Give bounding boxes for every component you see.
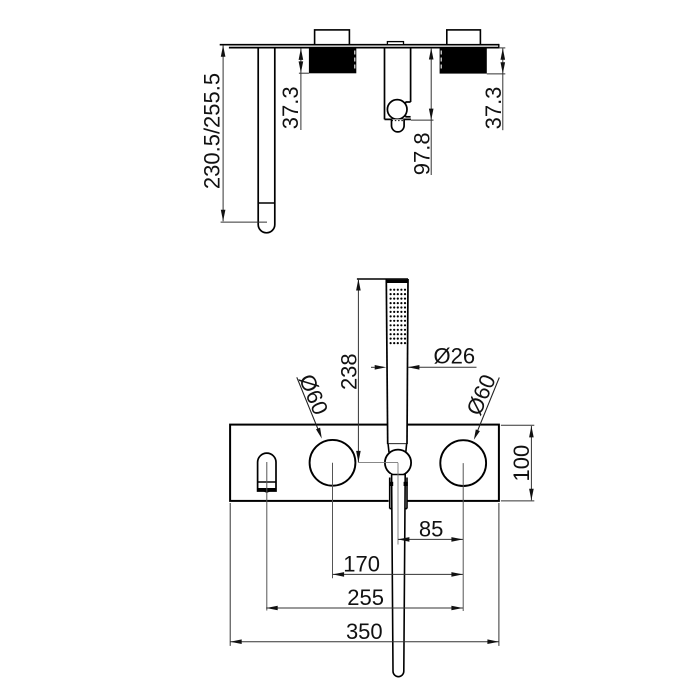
svg-text:350: 350: [346, 619, 383, 644]
holder ball joint: [387, 100, 407, 120]
svg-text:238: 238: [337, 353, 362, 390]
nub dotted top: [392, 120, 405, 122]
handshower holder (side view): [385, 48, 411, 120]
left handle cap above plate: [315, 30, 350, 45]
svg-text:230.5/255.5: 230.5/255.5: [199, 73, 224, 189]
svg-text:37.3: 37.3: [278, 86, 303, 129]
right knob: [440, 440, 486, 486]
dim 97.8: [411, 48, 434, 175]
dim 85: [398, 538, 463, 540]
mounting plate: [230, 425, 499, 501]
svg-text:97.8: 97.8: [410, 132, 435, 175]
dim Ø26: [371, 366, 375, 368]
holder flange above plate: [387, 42, 403, 45]
label Ø60 left leader: [297, 377, 320, 434]
right handle body (black): [440, 48, 487, 73]
dim 100: [501, 425, 534, 501]
left knob: [310, 440, 356, 486]
svg-text:100: 100: [509, 445, 534, 482]
svg-text:255: 255: [347, 585, 384, 610]
spout (side view): [258, 48, 275, 233]
spout centerline: [266, 462, 268, 611]
handshower head black cap: [387, 280, 408, 283]
spout (front view): [258, 453, 276, 491]
centerline horizontal at ball: [358, 461, 398, 463]
hose collar rings: [389, 482, 393, 486]
hose connector blank: [389, 474, 408, 514]
label Ø60 right leader: [476, 378, 500, 436]
dim left 37.3: [299, 48, 309, 130]
dim 350: [230, 503, 499, 646]
wall plate bottom line: [229, 47, 499, 49]
wall plate top line: [220, 44, 499, 46]
svg-text:Ø26: Ø26: [434, 344, 476, 369]
centerline ball to hose: [397, 463, 399, 545]
handshower neck trapezoid: [388, 444, 407, 452]
left handle knurl dashes: [354, 51, 356, 69]
dim 238: [357, 279, 359, 462]
hose collar: [390, 478, 407, 509]
svg-text:170: 170: [343, 552, 380, 577]
svg-text:37.3: 37.3: [481, 87, 506, 130]
wall plate right edge: [498, 44, 500, 49]
handshower body: [386, 279, 408, 444]
dim 255: [266, 607, 463, 609]
spray face dots: [390, 289, 407, 345]
right handle knurl dashes: [440, 51, 442, 69]
right knob centerline: [462, 463, 464, 611]
left knob centerline: [332, 463, 334, 579]
dim right 37.3: [487, 48, 506, 130]
dim 230.5/255.5: [221, 45, 267, 222]
left handle body (black): [309, 48, 356, 73]
hose: [392, 475, 406, 677]
dim 170: [333, 573, 463, 575]
handshower head top line: [357, 278, 408, 280]
handshower ball joint: [385, 450, 411, 476]
svg-text:85: 85: [419, 517, 443, 542]
right handle cap above plate: [447, 30, 481, 45]
holder outlet nub: [392, 119, 405, 131]
